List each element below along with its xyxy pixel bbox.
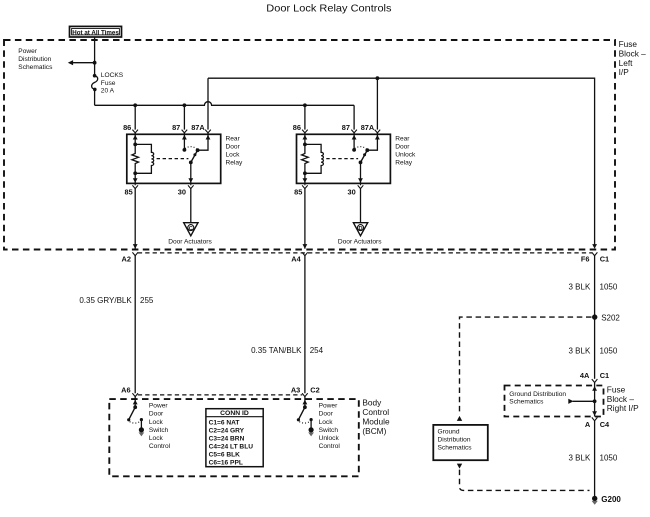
svg-text:CONN ID: CONN ID: [220, 410, 249, 417]
node: bus junction to relay1 86: [133, 103, 137, 107]
svg-text:Schematics: Schematics: [18, 64, 53, 71]
dotted throw arc relay1: [185, 147, 197, 149]
wire: relay2 87A drop from upper line: [376, 78, 378, 129]
connector terminal relay2 30: [358, 185, 364, 188]
svg-text:Relay: Relay: [226, 160, 244, 167]
svg-text:D: D: [358, 226, 362, 232]
svg-text:3 BLK: 3 BLK: [569, 347, 591, 356]
svg-text:87A: 87A: [191, 123, 205, 132]
wire: relay1 30 to door actuators: [190, 189, 192, 223]
connector A2: [132, 252, 138, 255]
svg-text:C3=24 BRN: C3=24 BRN: [209, 436, 245, 443]
node: relay1 87A stationary contact: [196, 148, 200, 152]
node: splice S202: [592, 314, 597, 319]
svg-text:1050: 1050: [600, 453, 618, 462]
svg-text:F6: F6: [581, 255, 590, 264]
svg-text:A4: A4: [291, 255, 301, 264]
svg-text:C1=6 NAT: C1=6 NAT: [209, 420, 240, 427]
svg-text:Control: Control: [149, 443, 171, 450]
svg-text:4A: 4A: [580, 371, 590, 380]
svg-text:C2=24 GRY: C2=24 GRY: [209, 428, 245, 435]
svg-text:A6: A6: [121, 385, 130, 394]
svg-text:Control: Control: [362, 407, 389, 417]
connector terminal relay1 30: [188, 185, 194, 188]
svg-text:Unlock: Unlock: [319, 435, 340, 442]
node: relay2 87 stationary contact: [352, 148, 356, 152]
relay1 coil input wire 86 with entry arrow: [134, 134, 136, 144]
svg-text:A2: A2: [122, 255, 131, 264]
svg-text:Door Actuators: Door Actuators: [338, 238, 382, 245]
svg-text:Door: Door: [319, 411, 334, 418]
relay K2: Rear Door Unlock Relay box: [297, 134, 391, 183]
dashed reference path from S202 to ground distribution: [460, 317, 592, 415]
node: junction of relay2 87A on upper line: [376, 76, 380, 80]
relay1 coil output wire 85 with exit arrow: [134, 173, 136, 183]
relay2 coil input wire 86 with entry arrow: [304, 134, 306, 144]
arrow out of Ground Distribution Schematics box (bottom): [457, 464, 462, 469]
svg-text:30: 30: [178, 188, 186, 197]
connector terminal relay2 85: [302, 185, 308, 188]
wire: fuse output down to feed bus: [94, 89, 96, 105]
svg-text:I/P: I/P: [619, 67, 630, 77]
svg-text:C4: C4: [600, 420, 610, 429]
svg-text:C1: C1: [600, 371, 609, 380]
svg-text:Door: Door: [149, 411, 164, 418]
connector terminal relay1 86: [132, 130, 138, 133]
wire: F6 to 4A circuit 1050 upper: [594, 256, 596, 379]
svg-text:87: 87: [342, 123, 350, 132]
connector ID table: [206, 409, 263, 467]
svg-text:Ground: Ground: [438, 429, 460, 436]
connector terminal relay2 86: [302, 130, 308, 133]
wire: A2 to A6 circuit 255: [134, 256, 136, 394]
svg-text:C5=6 BLK: C5=6 BLK: [209, 452, 241, 459]
relay1 common wire 30 with exit arrow: [190, 162, 192, 183]
node: relay2 coil top junction: [303, 143, 307, 147]
node: relay2 87A stationary contact: [365, 148, 369, 152]
svg-text:A3: A3: [291, 385, 300, 394]
svg-text:Relay: Relay: [395, 160, 413, 167]
fuse block left I/P dashed boundary box: [4, 40, 615, 250]
connector terminal relay1 85: [132, 185, 138, 188]
svg-text:Control: Control: [319, 443, 341, 450]
node: bus junction to relay2 86: [303, 103, 307, 107]
wire: F6 drop arrow into border: [592, 244, 597, 249]
wire: reference arrow to Ground Distribution Schematics (inside right fuse block): [573, 400, 595, 402]
node: relay2 switch pivot: [359, 161, 363, 165]
svg-text:255: 255: [140, 296, 154, 305]
wire: pass-through inside right fuse block: [594, 383, 596, 417]
resistor inside relay2: [302, 144, 309, 173]
wire: C4 to G200 circuit 1050 lower: [594, 421, 596, 499]
connector A4: [302, 252, 308, 255]
switch: power door lock switch unlock control: [303, 405, 307, 409]
wire: relay2 86 drop from bus: [304, 105, 306, 129]
relay2 87 wire inside with entry arrow: [353, 134, 355, 150]
svg-text:Lock: Lock: [149, 435, 164, 442]
switch: power door lock switch lock control: [133, 405, 137, 409]
wire: relay2 30 to door actuators: [360, 189, 362, 223]
node: relay1 coil top junction: [133, 143, 137, 147]
svg-text:Ground Distribution: Ground Distribution: [509, 391, 566, 398]
svg-text:Lock: Lock: [149, 419, 164, 426]
wire: relay1 87 drop from bus: [183, 105, 185, 129]
relay2 87A wire inside with entry arrow: [367, 134, 377, 150]
wire: battery feed down from Hot at All Times tag: [94, 37, 96, 75]
coil inside relay2: [305, 144, 324, 173]
svg-text:20 A: 20 A: [101, 88, 115, 95]
svg-text:1050: 1050: [600, 347, 618, 356]
wire: A6 into BCM with entry arrow: [134, 397, 136, 408]
svg-text:87: 87: [172, 123, 180, 132]
node: bus junction to relay1 87: [183, 103, 187, 107]
relay1 87A wire inside with entry arrow: [198, 134, 208, 150]
svg-text:3 BLK: 3 BLK: [569, 283, 591, 292]
wire: A4 to A3 circuit 254: [304, 256, 306, 394]
svg-text:C6=16 PPL: C6=16 PPL: [209, 460, 243, 467]
svg-text:Switch: Switch: [149, 427, 169, 434]
wire: A3 into BCM with entry arrow: [304, 397, 306, 408]
wire: relay2 85 down to connector A4: [304, 189, 306, 249]
wire: relay2 87 drop from bus corner: [353, 105, 355, 129]
svg-text:87A: 87A: [361, 123, 375, 132]
relay K1: Rear Door Lock Relay box: [127, 134, 221, 183]
svg-text:86: 86: [123, 123, 131, 132]
connector terminal relay2 87A: [375, 130, 381, 133]
connector A3 C2: [302, 393, 308, 396]
svg-text:30: 30: [347, 188, 355, 197]
ground G200: [592, 496, 597, 501]
svg-text:Lock: Lock: [319, 419, 334, 426]
svg-text:Schematics: Schematics: [509, 398, 544, 405]
svg-text:Door: Door: [226, 144, 241, 151]
svg-text:G200: G200: [601, 495, 621, 504]
svg-text:Right I/P: Right I/P: [607, 403, 639, 413]
svg-text:A: A: [585, 420, 591, 429]
connector A C4: [592, 417, 598, 420]
node: junction dot to Power Distribution arrow: [93, 61, 97, 65]
svg-text:Power: Power: [18, 48, 37, 55]
Hot at All Times power tag box: [70, 26, 122, 37]
resistor inside relay1: [132, 144, 139, 173]
svg-text:Body: Body: [362, 397, 382, 407]
svg-text:Distribution: Distribution: [438, 437, 471, 444]
in-line connector dashed line below power box: [138, 252, 592, 254]
wire: feed bus with hop over 87A wire: [95, 102, 355, 106]
svg-text:3 BLK: 3 BLK: [569, 453, 591, 462]
door actuator symbol C: [184, 223, 198, 236]
svg-text:S202: S202: [601, 314, 620, 323]
svg-text:LOCKS: LOCKS: [101, 72, 124, 79]
connector terminal relay1 87: [182, 130, 188, 133]
svg-text:(BCM): (BCM): [362, 426, 386, 436]
relay2 switch blade: [361, 150, 368, 162]
dashed reference path from ground distribution to G200: [460, 470, 590, 491]
relay2 coil output wire 85 with exit arrow: [304, 173, 306, 183]
svg-text:C2: C2: [310, 385, 319, 394]
svg-text:Module: Module: [362, 417, 390, 427]
wire: relay1 85 down to connector A2: [134, 189, 136, 249]
svg-text:0.35 GRY/BLK: 0.35 GRY/BLK: [79, 296, 132, 305]
svg-text:Power: Power: [319, 403, 338, 410]
relay2 common wire 30 with exit arrow: [360, 162, 362, 183]
fuse: LOCKS Fuse 20 A: [93, 74, 97, 78]
svg-text:C1: C1: [600, 255, 609, 264]
svg-text:Switch: Switch: [319, 427, 339, 434]
wire: upper 87A line to fuse block F6: [208, 78, 595, 244]
svg-text:Rear: Rear: [226, 136, 241, 143]
svg-text:1050: 1050: [600, 283, 618, 292]
svg-text:Distribution: Distribution: [18, 56, 51, 63]
connector terminal relay1 87A: [205, 130, 211, 133]
dashed actuation link relay1: [157, 158, 189, 160]
svg-text:85: 85: [124, 188, 132, 197]
in-line connector dashed line at BCM: [138, 394, 302, 396]
node: relay1 switch pivot: [189, 161, 193, 165]
svg-text:86: 86: [293, 123, 301, 132]
svg-text:Door Actuators: Door Actuators: [168, 238, 212, 245]
svg-text:C: C: [189, 226, 193, 232]
svg-text:254: 254: [310, 346, 324, 355]
svg-text:Power: Power: [149, 403, 168, 410]
wire: relay1 87A riser from upper line through bus hop: [207, 78, 209, 129]
svg-text:C4=24 LT BLU: C4=24 LT BLU: [209, 444, 254, 451]
svg-text:Hot at All Times: Hot at All Times: [72, 30, 119, 37]
svg-text:Rear: Rear: [395, 136, 410, 143]
svg-text:Door Lock Relay Controls: Door Lock Relay Controls: [266, 4, 391, 15]
svg-text:Unlock: Unlock: [395, 152, 416, 159]
svg-text:Door: Door: [395, 144, 410, 151]
node: relay1 87 stationary contact: [183, 148, 187, 152]
connector A6: [132, 393, 138, 396]
door actuator symbol D: [353, 223, 367, 236]
dashed actuation link relay2: [326, 158, 358, 160]
fuse block right I/P dashed boundary box: [505, 386, 604, 417]
dotted throw arc relay2: [355, 147, 367, 149]
node: relay1 coil bottom junction: [133, 171, 137, 175]
body control module dashed boundary box: [109, 399, 358, 476]
wire: reference arrow to Power Distribution Schematics: [72, 62, 95, 64]
svg-text:Lock: Lock: [226, 152, 241, 159]
wire: relay1 86 drop from bus: [134, 105, 136, 129]
svg-text:Fuse: Fuse: [101, 80, 116, 87]
relay1 switch blade: [191, 150, 198, 162]
connector terminal relay2 87: [351, 130, 357, 133]
node: relay2 coil bottom junction: [303, 171, 307, 175]
svg-text:Schematics: Schematics: [438, 445, 473, 452]
connector F6 C1: [592, 252, 598, 255]
reference box: Ground Distribution Schematics: [433, 425, 488, 460]
coil inside relay1: [135, 144, 154, 173]
svg-text:85: 85: [294, 188, 302, 197]
arrow into Ground Distribution Schematics box (top): [457, 416, 462, 421]
node: junction to ground distribution reference: [593, 399, 597, 403]
relay1 87 wire inside with entry arrow: [183, 134, 185, 150]
svg-text:0.35 TAN/BLK: 0.35 TAN/BLK: [251, 346, 302, 355]
